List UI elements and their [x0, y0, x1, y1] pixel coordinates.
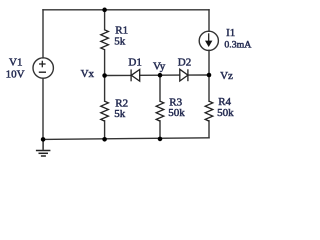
svg-text:50k: 50k: [217, 107, 234, 119]
wire R4 top lead from node Vz: [208, 75, 210, 101]
svg-text:5k: 5k: [114, 36, 126, 48]
wire R3 top lead from node Vy: [159, 75, 161, 101]
node Vx: [102, 73, 107, 78]
diode D2: [180, 69, 188, 81]
wire D2 cathode to node Vz: [188, 74, 209, 76]
voltage source V1: [33, 58, 53, 78]
wire D1 anode to node Vy: [140, 74, 160, 76]
wire R2 bottom lead to bottom rail: [104, 121, 106, 140]
node junction bottom rail / R2: [102, 137, 107, 142]
wire left from top rail to V1 top: [42, 10, 44, 58]
wire V1 bottom to bottom rail: [42, 78, 44, 139]
wire top rail: [43, 9, 209, 11]
node junction bottom rail / ground: [41, 137, 46, 142]
svg-text:R1: R1: [115, 25, 128, 37]
svg-text:Vy: Vy: [153, 60, 166, 72]
wire node Vy to D2 anode: [160, 74, 180, 76]
wire R2 top lead from node Vx: [104, 76, 106, 102]
resistor R3: [156, 101, 164, 121]
svg-text:5k: 5k: [114, 108, 126, 120]
current source I1: [199, 31, 218, 50]
node Vy: [158, 73, 163, 78]
diode D1: [131, 69, 140, 81]
wire node Vx to D1 cathode: [105, 74, 132, 76]
node junction top rail / R1: [102, 8, 107, 13]
wire R1 top lead from top rail: [104, 10, 106, 30]
wire bottom rail: [43, 138, 209, 140]
resistor R1: [101, 30, 109, 50]
svg-text:D2: D2: [178, 56, 191, 68]
node Vz: [207, 73, 212, 78]
svg-text:V1: V1: [9, 57, 22, 69]
ground: [36, 139, 51, 156]
wire I1 bottom lead to node Vz: [208, 50, 210, 75]
wire I1 top lead from top rail: [208, 10, 210, 32]
resistor R2: [101, 101, 109, 121]
node junction bottom rail / R3: [158, 137, 163, 142]
svg-text:Vx: Vx: [81, 68, 95, 80]
svg-text:10V: 10V: [6, 68, 25, 80]
svg-text:I1: I1: [226, 27, 235, 39]
svg-text:0.3mA: 0.3mA: [224, 40, 251, 51]
svg-text:Vz: Vz: [220, 70, 233, 82]
wire R1 bottom lead to node Vx: [104, 50, 106, 76]
svg-text:D1: D1: [128, 56, 141, 68]
resistor R4: [205, 101, 213, 121]
svg-text:50k: 50k: [168, 107, 185, 119]
wire R3 bottom lead to bottom rail: [159, 121, 161, 139]
wire R4 bottom lead to bottom rail: [208, 121, 210, 138]
